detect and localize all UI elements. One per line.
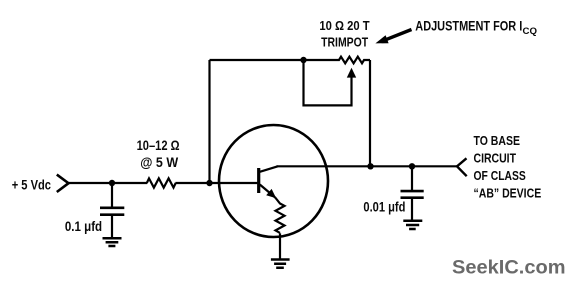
svg-text:+ 5 Vdc: + 5 Vdc — [12, 176, 51, 192]
svg-text:TRIMPOT: TRIMPOT — [321, 35, 368, 50]
svg-text:OF CLASS: OF CLASS — [474, 168, 527, 183]
watermark SeekIC.com — [452, 257, 566, 279]
capacitor C1 0.1 ufd stem top — [111, 183, 113, 207]
annotation arrow to trimpot — [375, 30, 411, 44]
capacitor C2 0.01 ufd stem top — [411, 166, 413, 190]
wire top rail with trimpot zigzag — [210, 57, 371, 64]
value label 0.1 ufd — [65, 219, 102, 234]
node junction right riser — [367, 163, 373, 169]
label ADJUSTMENT FOR ICQ — [415, 19, 537, 37]
transistor Q1 base bar — [257, 168, 260, 193]
svg-text:@ 5 W: @ 5 W — [140, 154, 178, 170]
ground below C2 — [403, 221, 422, 229]
svg-text:0.01 μfd: 0.01 μfd — [363, 199, 405, 214]
node junction wiper tie — [300, 57, 306, 63]
capacitor C1 stem bottom — [111, 215, 113, 237]
wire wiper loop — [304, 60, 352, 105]
node junction C1 — [109, 180, 115, 186]
transistor Q1 envelope circle — [219, 125, 328, 237]
wire main supply rail y=183 — [69, 182, 258, 184]
wire output rail y=166.3 — [277, 165, 458, 167]
ground below emitter resistor — [271, 260, 290, 268]
trimpot wiper arrow head — [347, 68, 356, 78]
node +5 Vdc label — [12, 176, 51, 192]
capacitor C1 plates — [100, 208, 124, 215]
capacitor C2 plates — [401, 191, 424, 198]
svg-text:0.1 μfd: 0.1 μfd — [65, 219, 102, 234]
svg-text:“AB” DEVICE: “AB” DEVICE — [474, 185, 542, 200]
value label 10-12 ohm — [137, 137, 180, 153]
svg-text:SeekIC.com: SeekIC.com — [452, 257, 566, 279]
resistor R1 10-12 ohm zigzag — [147, 178, 176, 187]
svg-text:10 Ω 20 T: 10 Ω 20 T — [319, 18, 369, 33]
value label @ 5 W — [140, 154, 178, 170]
internal emitter resistor zigzag — [275, 198, 284, 233]
value label 10 ohm 20 T — [319, 18, 369, 33]
wire right riser x=370 — [369, 60, 371, 166]
output arrow (to base circuit) — [457, 158, 467, 176]
ground below C1 — [103, 238, 122, 246]
transistor Q1 emitter with arrow — [260, 185, 276, 199]
input arrow (+5 Vdc feed) — [57, 175, 69, 192]
transistor Q1 collector diagonal — [260, 166, 278, 172]
label TO BASE CIRCUIT OF CLASS AB DEVICE — [474, 133, 542, 200]
node junction C2 — [409, 163, 415, 169]
capacitor C2 stem bottom — [411, 198, 413, 220]
value label 0.01 ufd — [363, 199, 405, 214]
wire left riser x=209 — [208, 60, 210, 183]
svg-text:CIRCUIT: CIRCUIT — [474, 151, 517, 166]
svg-text:CQ: CQ — [523, 26, 538, 37]
svg-text:10–12 Ω: 10–12 Ω — [137, 137, 180, 153]
svg-text:TO BASE: TO BASE — [474, 133, 521, 148]
value label TRIMPOT — [321, 35, 368, 50]
wire emitter to ground — [279, 233, 281, 258]
svg-text:ADJUSTMENT FOR I: ADJUSTMENT FOR I — [415, 19, 522, 34]
node junction left riser — [206, 180, 212, 186]
